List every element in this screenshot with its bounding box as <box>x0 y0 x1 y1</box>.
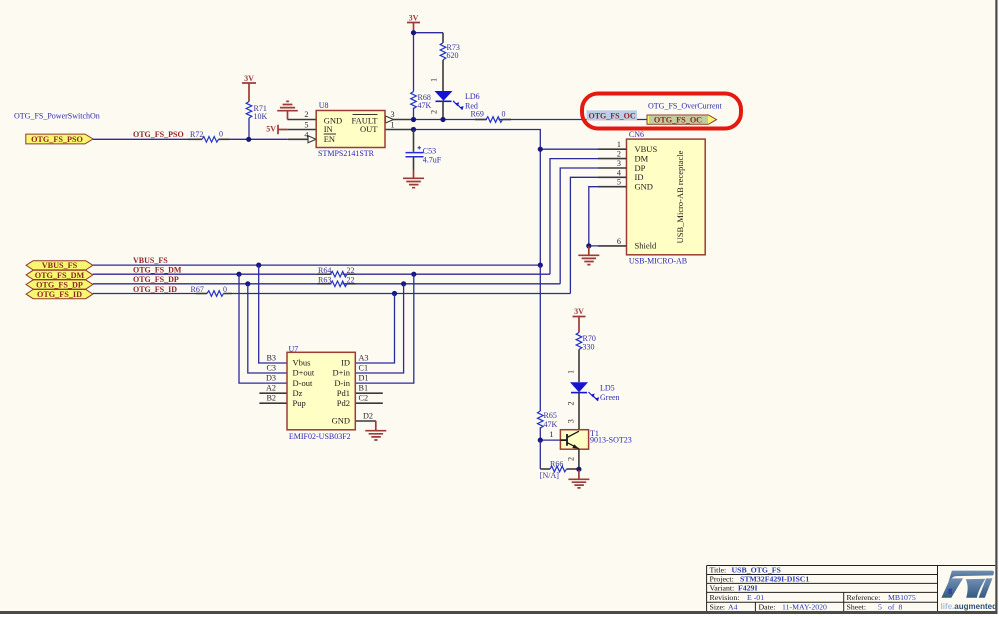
pin 3 stub CN6 <box>598 167 627 169</box>
LED LD6 <box>435 91 480 111</box>
svg-text:Date:: Date: <box>759 603 776 612</box>
wire T1 emitter to ground <box>578 449 580 472</box>
svg-text:R69: R69 <box>471 110 484 119</box>
sheet border bottom <box>0 611 998 614</box>
power 5V at U8 pin5 <box>266 125 288 135</box>
junction DP/U7 D+out <box>245 281 250 286</box>
junction emitter/R66 <box>576 467 581 472</box>
svg-text:GND: GND <box>635 182 653 192</box>
svg-text:R64: R64 <box>318 266 331 275</box>
svg-text:B3: B3 <box>266 354 276 363</box>
junction PSO/R71 <box>246 137 251 142</box>
wire CN6 pin3 to DP <box>560 168 598 284</box>
svg-text:4: 4 <box>617 168 621 177</box>
svg-text:2: 2 <box>567 401 576 405</box>
svg-text:22: 22 <box>347 266 355 275</box>
wire U7 D-out branch <box>239 274 287 383</box>
svg-text:EMIF02-USB03F2: EMIF02-USB03F2 <box>289 432 351 441</box>
svg-text:OTG_FS_DP: OTG_FS_DP <box>133 275 179 284</box>
svg-text:2: 2 <box>430 110 439 114</box>
svg-text:A4: A4 <box>728 603 738 612</box>
wire R71 to PSO net <box>248 118 250 139</box>
wire CN6 pin5 GND down <box>589 187 598 246</box>
ground earth below CN6 <box>578 246 599 265</box>
resistor R67 <box>191 285 233 297</box>
junction DM/U7 D-in <box>411 272 416 277</box>
wire VBUS to R65 <box>539 265 541 411</box>
junction VBUS/U7 branch <box>256 263 261 268</box>
port VBUS_FS <box>26 261 93 271</box>
svg-text:U8: U8 <box>319 101 329 110</box>
port OTG_FS_DM <box>26 270 93 280</box>
resistor R71 <box>246 102 267 122</box>
wire R68 to FAULT net <box>413 108 415 120</box>
svg-text:3V: 3V <box>244 74 254 83</box>
svg-text:of: of <box>888 603 895 612</box>
svg-text:C1: C1 <box>359 364 369 373</box>
resistor R64 <box>317 266 356 277</box>
resistor R72 <box>188 130 229 143</box>
svg-text:D2: D2 <box>363 411 373 420</box>
svg-text:0: 0 <box>219 130 223 139</box>
junction FAULT/LD6 <box>440 117 445 122</box>
pin B1 stub of U7 <box>355 392 383 394</box>
svg-text:MB1075: MB1075 <box>888 593 916 602</box>
svg-text:Pd1: Pd1 <box>337 388 350 398</box>
pin 2 stub CN6 <box>598 158 627 160</box>
svg-text:D-in: D-in <box>334 378 350 388</box>
svg-text:U7: U7 <box>289 345 299 354</box>
svg-text:OTG_FS_OC: OTG_FS_OC <box>654 116 702 125</box>
junction VBUS/pin1 <box>538 147 543 152</box>
pin C2 stub of U7 <box>355 402 383 404</box>
wire base node <box>540 439 560 441</box>
pin A2 stub of U7 <box>259 392 287 394</box>
svg-text:VBUS_FS: VBUS_FS <box>133 256 168 265</box>
junction GND/shield <box>586 243 591 248</box>
wire OUT net <box>414 130 541 266</box>
svg-text:C53: C53 <box>423 146 436 155</box>
transistor T1 <box>560 429 631 449</box>
svg-text:OTG_FS_OverCurrent: OTG_FS_OverCurrent <box>648 101 723 110</box>
ground GND flipped earth at U8 pin2 <box>277 101 298 119</box>
svg-text:GND: GND <box>332 416 350 426</box>
svg-text:Reference:: Reference: <box>847 593 881 602</box>
junction ID/U7 ID <box>392 291 397 296</box>
svg-text:5V: 5V <box>266 125 276 134</box>
wire OTG_FS_DP net <box>93 283 560 285</box>
wire LD5 to T1 collector <box>578 393 580 430</box>
junction VBUS/R65 branch <box>538 263 543 268</box>
port OTG_FS_OC <box>647 115 717 125</box>
svg-text:1: 1 <box>391 121 395 130</box>
svg-text:5: 5 <box>617 178 621 187</box>
pin B2 stub of U7 <box>259 402 287 404</box>
svg-text:D1: D1 <box>359 374 369 383</box>
svg-text:Sheet:: Sheet: <box>847 603 867 612</box>
resistor R63 <box>317 275 356 286</box>
wire LD6 to FAULT net <box>442 101 444 119</box>
svg-text:C2: C2 <box>359 394 369 403</box>
svg-text:330: 330 <box>583 343 595 352</box>
svg-text:ID: ID <box>341 358 350 368</box>
LED LD5 <box>570 382 620 402</box>
wire U7 ID branch <box>355 294 394 364</box>
title row <box>710 566 916 612</box>
svg-text:R72: R72 <box>190 130 203 139</box>
svg-text:D3: D3 <box>266 374 276 383</box>
svg-text:Size:: Size: <box>710 603 726 612</box>
port OTG_FS_DP <box>26 280 93 290</box>
svg-text:1: 1 <box>617 140 621 149</box>
svg-text:9013-SOT23: 9013-SOT23 <box>590 435 632 444</box>
svg-text:E -01: E -01 <box>747 593 764 602</box>
resistor R70 <box>576 332 596 351</box>
svg-text:F429I: F429I <box>738 584 758 593</box>
svg-text:1: 1 <box>567 370 576 374</box>
svg-text:10K: 10K <box>254 112 268 121</box>
IC U8 STMPS2141STR power switch body <box>316 101 385 158</box>
ground earth below C53 <box>403 170 424 188</box>
svg-text:1: 1 <box>430 78 439 82</box>
wire U7 D-in branch <box>355 274 414 383</box>
svg-text:3: 3 <box>567 419 576 423</box>
svg-text:Pd2: Pd2 <box>337 398 350 408</box>
junction OUT/C53 <box>411 127 416 132</box>
svg-text:Vbus: Vbus <box>293 358 311 368</box>
svg-text:USB_Micro-AB receptacle: USB_Micro-AB receptacle <box>675 150 685 243</box>
wire OTG_FS_DM net <box>93 273 550 275</box>
wire U7 Vbus branch <box>259 265 287 363</box>
svg-text:Title:: Title: <box>710 566 727 575</box>
svg-text:D+out: D+out <box>293 368 315 378</box>
IC U7 body <box>287 345 355 442</box>
svg-text:LD5: LD5 <box>600 384 615 393</box>
svg-text:4.7uF: 4.7uF <box>423 156 442 165</box>
resistor R73 <box>440 43 460 60</box>
svg-text:8: 8 <box>899 603 903 612</box>
svg-text:USB-MICRO-AB: USB-MICRO-AB <box>629 257 687 266</box>
svg-text:LD6: LD6 <box>465 92 480 101</box>
svg-text:3V: 3V <box>574 307 584 316</box>
svg-text:OTG_FS_PSO: OTG_FS_PSO <box>133 130 184 139</box>
svg-text:D+in: D+in <box>332 368 350 378</box>
junction DP/U7 D+in <box>401 281 406 286</box>
wire 3V branch <box>414 33 444 92</box>
wire R73 to LD6 <box>442 60 444 91</box>
power 3V (R71 pullup) <box>242 74 256 102</box>
svg-text:R63: R63 <box>318 275 331 284</box>
pin 5 stub of U8 <box>288 129 316 131</box>
svg-text:[N/A]: [N/A] <box>540 471 559 480</box>
svg-text:2: 2 <box>304 110 308 119</box>
svg-text:11-MAY-2020: 11-MAY-2020 <box>782 603 827 612</box>
resistor R65 <box>538 411 558 429</box>
svg-text:EN: EN <box>324 134 335 144</box>
svg-text:IN: IN <box>324 124 333 134</box>
pin 3 stub of U8 with output arrow <box>386 116 414 123</box>
wire CN6 pin4 to ID <box>570 177 598 293</box>
pin D2 GND stub of U7 <box>355 420 376 422</box>
pin 5 stub CN6 <box>598 186 627 188</box>
ground earth below T1 <box>568 470 589 488</box>
svg-text:OTG_FS_PowerSwitchOn: OTG_FS_PowerSwitchOn <box>14 112 100 121</box>
svg-text:life.augmented: life.augmented <box>941 602 998 611</box>
svg-text:8: 8 <box>948 586 952 596</box>
junction DM/U7 D-out <box>236 272 241 277</box>
svg-text:22: 22 <box>347 275 355 284</box>
svg-text:B1: B1 <box>359 384 369 393</box>
svg-text:B2: B2 <box>266 394 276 403</box>
svg-text:2: 2 <box>617 150 621 159</box>
power 3V (LD5) <box>573 307 586 332</box>
wire OTG_FS_PSO net <box>93 138 288 140</box>
svg-text:A2: A2 <box>266 384 276 393</box>
svg-text:620: 620 <box>447 51 459 60</box>
resistor R68 <box>411 92 432 111</box>
svg-text:6: 6 <box>617 237 621 246</box>
svg-text:OTG_FS_DM: OTG_FS_DM <box>35 271 85 280</box>
net label OTG_FS_OC highlighted <box>587 110 638 120</box>
svg-text:OTG_FS_PSO: OTG_FS_PSO <box>31 135 83 144</box>
svg-text:A3: A3 <box>359 354 369 363</box>
svg-text:USB_OTG_FS: USB_OTG_FS <box>732 566 781 575</box>
svg-text:3: 3 <box>617 159 621 168</box>
svg-text:VBUS_FS: VBUS_FS <box>42 261 78 270</box>
wire CN6 pin2 to DM <box>550 159 598 275</box>
capacitor C53 <box>406 130 442 171</box>
svg-text:STMPS2141STR: STMPS2141STR <box>318 149 375 158</box>
junction 3V <box>411 30 416 35</box>
svg-text:4: 4 <box>304 130 308 139</box>
svg-text:R65: R65 <box>544 411 557 420</box>
connector CN6 body <box>627 130 706 266</box>
svg-text:R67: R67 <box>191 285 204 294</box>
power 3V (top) <box>407 14 420 33</box>
wire VBUS_FS net <box>93 264 541 266</box>
junction FAULT/R68 <box>411 117 416 122</box>
resistor R69 <box>471 110 512 123</box>
annotation red ellipse <box>582 94 741 129</box>
wire R66 from base <box>540 440 579 469</box>
svg-text:Revision:: Revision: <box>710 593 740 602</box>
pin 2 stub of U8 <box>288 119 317 121</box>
svg-text:5: 5 <box>304 121 308 130</box>
pin 4 stub of U8 with input arrow <box>288 136 316 143</box>
pin 6 stub CN6 <box>598 245 627 247</box>
sheet border right <box>995 0 997 614</box>
wire CN6 pin1 to VBUS vertical <box>540 148 598 150</box>
svg-text:Pup: Pup <box>293 398 306 408</box>
svg-text:Dz: Dz <box>293 388 303 398</box>
pin 4 stub CN6 <box>598 176 627 178</box>
svg-text:CN6: CN6 <box>629 130 644 139</box>
svg-text:OUT: OUT <box>360 124 378 134</box>
resistor R66 <box>540 460 567 480</box>
svg-text:Variant:: Variant: <box>710 584 735 593</box>
svg-text:OTG_FS_DM: OTG_FS_DM <box>133 266 182 275</box>
svg-text:1: 1 <box>549 430 553 439</box>
ground earth below U7 <box>365 421 386 440</box>
svg-text:OTG_FS_ID: OTG_FS_ID <box>37 290 82 299</box>
svg-text:0: 0 <box>223 285 227 294</box>
wire U7 D+out branch <box>248 284 287 373</box>
svg-text:3: 3 <box>391 110 395 119</box>
svg-text:0: 0 <box>502 110 506 119</box>
port OTG_FS_PSO <box>26 134 93 144</box>
svg-text:D-out: D-out <box>293 378 313 388</box>
wire FAULT net <box>414 119 648 121</box>
svg-text:2: 2 <box>567 457 576 461</box>
wire U7 D+in branch <box>355 284 403 373</box>
svg-text:3V: 3V <box>409 14 419 23</box>
svg-text:Project:: Project: <box>710 575 734 584</box>
ST logo <box>941 571 998 611</box>
svg-text:OTG_FS_OC: OTG_FS_OC <box>589 112 636 121</box>
port OTG_FS_ID <box>26 290 93 300</box>
svg-text:5: 5 <box>878 603 882 612</box>
svg-text:OTG_FS_ID: OTG_FS_ID <box>133 285 177 294</box>
pin 1 stub CN6 <box>598 148 627 150</box>
svg-text:STM32F429I-DISC1: STM32F429I-DISC1 <box>740 575 809 584</box>
wire R70 to LD5 <box>578 350 580 383</box>
svg-text:C3: C3 <box>266 364 276 373</box>
svg-text:Shield: Shield <box>635 241 657 251</box>
pin 1 stub of U8 <box>385 129 414 131</box>
svg-text:47K: 47K <box>544 420 558 429</box>
svg-text:Green: Green <box>600 393 620 402</box>
wire OTG_FS_ID net <box>93 293 571 295</box>
wire R65 to T1 base <box>539 427 541 440</box>
svg-text:OTG_FS_DP: OTG_FS_DP <box>36 280 83 289</box>
svg-text:47K: 47K <box>418 101 432 110</box>
junction base/R66 <box>538 438 543 443</box>
